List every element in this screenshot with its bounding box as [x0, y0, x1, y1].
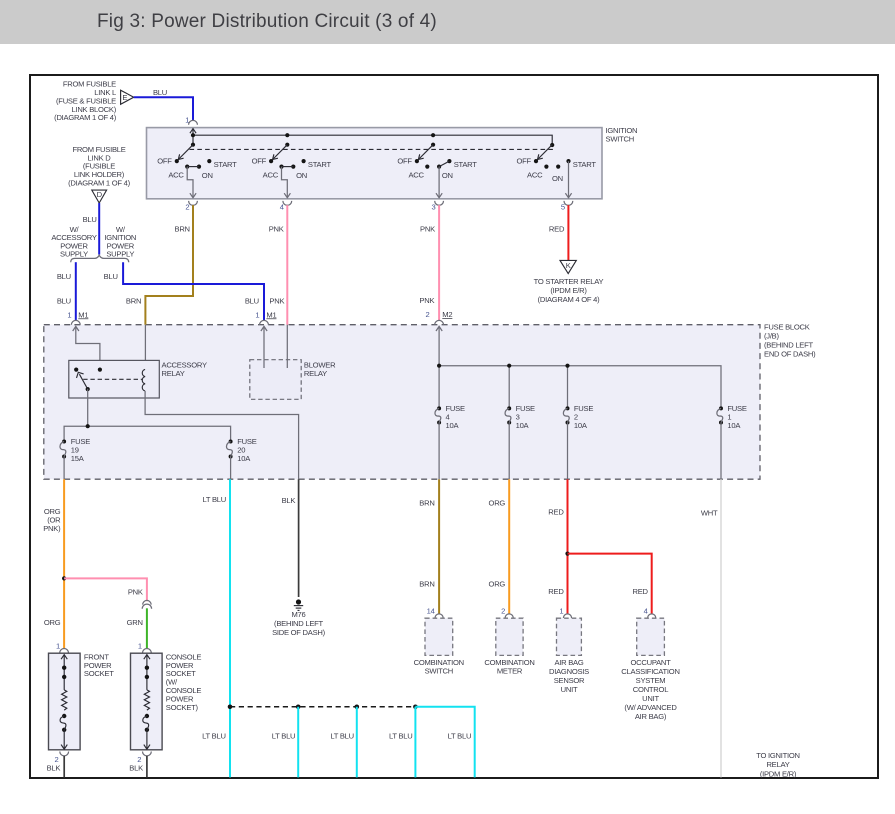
svg-text:START: START	[308, 160, 332, 169]
svg-text:M1: M1	[78, 310, 88, 319]
svg-text:START: START	[454, 160, 478, 169]
svg-text:1: 1	[255, 310, 259, 319]
console power socket	[129, 652, 201, 777]
svg-text:ON: ON	[202, 171, 213, 180]
svg-text:ON: ON	[296, 171, 307, 180]
svg-text:4: 4	[644, 607, 648, 616]
svg-text:PNK): PNK)	[43, 524, 61, 533]
svg-text:SWITCH: SWITCH	[606, 134, 634, 143]
wire PNK: ignition pin 4 to blower relay	[269, 205, 288, 368]
wire LT BLU: fuse 20 down to splice bus	[202, 479, 230, 777]
combination switch	[414, 618, 464, 675]
svg-text:ORG: ORG	[44, 618, 61, 627]
svg-text:K: K	[566, 261, 571, 270]
svg-text:BLK: BLK	[282, 496, 296, 505]
blower relay	[250, 360, 336, 400]
svg-text:UNIT: UNIT	[642, 694, 659, 703]
ignition switch pin 5 exit connector	[561, 201, 573, 211]
ignition switch box	[147, 126, 638, 199]
fuse 2 10A	[563, 404, 593, 479]
svg-text:START: START	[214, 160, 238, 169]
svg-text:RELAY: RELAY	[162, 369, 185, 378]
svg-text:OFF: OFF	[252, 157, 267, 166]
svg-text:ORG: ORG	[489, 580, 506, 589]
svg-text:PNK: PNK	[269, 297, 284, 306]
ignition switch gang 2 (feeds pin 4)	[252, 145, 332, 198]
svg-text:ACC: ACC	[408, 171, 424, 180]
fuse 19 15A	[60, 437, 90, 479]
svg-text:PNK: PNK	[420, 225, 435, 234]
connector E (from fusible link L)	[54, 79, 134, 122]
connector D (from fusible link D)	[68, 145, 131, 203]
svg-text:LT BLU: LT BLU	[202, 732, 226, 741]
fuse supply rail from connector M2	[437, 364, 721, 409]
svg-text:10A: 10A	[237, 454, 251, 463]
wire ORG: fuse 3 to combination meter pin 2	[489, 479, 514, 618]
svg-text:BLU: BLU	[83, 215, 97, 224]
svg-text:ACC: ACC	[527, 171, 543, 180]
svg-text:BLK: BLK	[129, 764, 143, 773]
svg-text:CONTROL: CONTROL	[633, 685, 668, 694]
svg-text:(IPDM E/R): (IPDM E/R)	[550, 286, 587, 295]
wire PNK: ignition pin 3 to fuse block connector M2	[419, 205, 452, 366]
svg-text:1: 1	[138, 642, 142, 651]
svg-text:LT BLU: LT BLU	[389, 732, 413, 741]
svg-text:PNK: PNK	[419, 296, 434, 305]
svg-text:AIR BAG: AIR BAG	[554, 658, 583, 667]
occupant classification system control unit	[621, 618, 679, 721]
svg-text:FUSE BLOCK: FUSE BLOCK	[764, 322, 810, 331]
inline connector (PNK to GRN)	[142, 600, 151, 608]
svg-text:Fig 3: Power Distribution Circ: Fig 3: Power Distribution Circuit (3 of …	[97, 11, 437, 32]
svg-text:ON: ON	[442, 171, 453, 180]
svg-text:RED: RED	[548, 508, 564, 517]
svg-text:RELAY: RELAY	[766, 760, 789, 769]
svg-text:3: 3	[432, 202, 436, 211]
wire RED: branch to occupant classification unit pin 4	[568, 554, 656, 618]
svg-text:2: 2	[137, 755, 141, 764]
svg-text:(DIAGRAM 1 OF 4): (DIAGRAM 1 OF 4)	[68, 179, 131, 188]
svg-text:OFF: OFF	[157, 157, 172, 166]
svg-text:PNK: PNK	[128, 588, 143, 597]
svg-text:1: 1	[56, 642, 60, 651]
svg-text:10A: 10A	[727, 421, 741, 430]
svg-text:(IPDM E/R): (IPDM E/R)	[760, 769, 797, 778]
svg-text:(W/ ADVANCED: (W/ ADVANCED	[624, 703, 677, 712]
wire GRN: inline connector to console power socket	[127, 608, 152, 653]
svg-text:TO IGNITION: TO IGNITION	[756, 751, 800, 760]
wire BRN: fuse 4 to combination switch pin 14	[419, 479, 443, 618]
svg-text:(J/B): (J/B)	[764, 331, 780, 340]
svg-text:UNIT: UNIT	[561, 685, 578, 694]
ground M76	[272, 599, 326, 637]
svg-text:PNK: PNK	[269, 225, 284, 234]
svg-text:1: 1	[67, 310, 71, 319]
fuse 3 10A	[505, 404, 535, 479]
svg-text:10A: 10A	[574, 421, 588, 430]
ignition switch pin 3 exit connector	[432, 201, 444, 211]
svg-text:ACC: ACC	[263, 171, 279, 180]
svg-text:AIR BAG): AIR BAG)	[635, 712, 667, 721]
svg-text:D: D	[97, 190, 103, 199]
svg-text:END OF DASH): END OF DASH)	[764, 349, 816, 358]
svg-text:SUPPLY: SUPPLY	[60, 250, 88, 259]
wire LT BLU drop 4	[389, 707, 415, 778]
wire RED: fuse 2 to air bag diagnosis sensor unit pin 1	[548, 479, 571, 618]
svg-text:E: E	[122, 93, 127, 102]
connector K (to starter relay)	[534, 260, 604, 304]
svg-text:2: 2	[55, 755, 59, 764]
svg-text:DIAGNOSIS: DIAGNOSIS	[549, 667, 589, 676]
svg-text:RED: RED	[633, 587, 649, 596]
svg-text:METER: METER	[497, 666, 523, 675]
air bag diagnosis sensor unit	[549, 618, 589, 694]
ignition switch gang 3 (feeds pin 3)	[397, 145, 477, 198]
svg-text:2: 2	[501, 607, 505, 616]
svg-text:BRN: BRN	[175, 225, 190, 234]
fuse 1 10A	[717, 404, 747, 479]
ignition switch gang 1 (OFF/ACC/ON/START, feeds pin 2)	[157, 145, 237, 198]
svg-text:(DIAGRAM 4 OF 4): (DIAGRAM 4 OF 4)	[538, 295, 601, 304]
fuse 20 10A	[226, 437, 256, 479]
svg-text:SUPPLY: SUPPLY	[106, 250, 134, 259]
wire BLU: ignition-supply branch to fuse block connector M1 (right)	[104, 262, 277, 368]
wire ORG: fuse 19 to front power socket	[43, 479, 68, 653]
svg-text:LT BLU: LT BLU	[330, 732, 354, 741]
svg-text:(DIAGRAM 1 OF 4): (DIAGRAM 1 OF 4)	[54, 113, 117, 122]
svg-text:M2: M2	[442, 310, 452, 319]
wire BLU: connector D to brace split	[83, 203, 100, 255]
svg-text:BLK: BLK	[47, 764, 61, 773]
svg-text:RELAY: RELAY	[304, 369, 327, 378]
svg-text:TO STARTER RELAY: TO STARTER RELAY	[534, 277, 604, 286]
svg-text:(BEHIND LEFT: (BEHIND LEFT	[764, 340, 814, 349]
svg-text:2: 2	[426, 310, 430, 319]
svg-text:OFF: OFF	[397, 157, 412, 166]
svg-text:BRN: BRN	[419, 580, 434, 589]
wire LT BLU drop 5 (jog)	[415, 707, 474, 778]
svg-text:GRN: GRN	[127, 618, 143, 627]
ignition switch pin 4 exit connector	[280, 201, 292, 211]
svg-text:2: 2	[185, 202, 189, 211]
svg-text:SWITCH: SWITCH	[425, 666, 453, 675]
svg-text:CLASSIFICATION: CLASSIFICATION	[621, 667, 679, 676]
ignition switch pin 2 exit connector	[185, 201, 197, 211]
svg-text:LT BLU: LT BLU	[272, 732, 296, 741]
svg-text:SENSOR: SENSOR	[554, 676, 585, 685]
svg-text:BLU: BLU	[153, 88, 167, 97]
wire BLU: connector E to ignition switch pin 1	[134, 88, 198, 125]
svg-text:14: 14	[427, 607, 435, 616]
svg-text:BLU: BLU	[57, 297, 71, 306]
splice bus (dashed) with LT BLU drops	[228, 705, 418, 710]
wire LT BLU drop 3	[330, 707, 356, 778]
svg-text:ORG: ORG	[489, 499, 506, 508]
svg-text:SYSTEM: SYSTEM	[636, 676, 666, 685]
svg-text:10A: 10A	[446, 421, 460, 430]
svg-text:SOCKET): SOCKET)	[166, 703, 199, 712]
svg-text:LT BLU: LT BLU	[448, 732, 472, 741]
wire BRN: ignition pin 2 to accessory relay coil	[126, 205, 193, 369]
wire BLU: accessory-supply branch to fuse block connector M1 (left)	[57, 262, 89, 331]
svg-text:SIDE OF DASH): SIDE OF DASH)	[272, 628, 326, 637]
svg-text:(BEHIND LEFT: (BEHIND LEFT	[274, 619, 324, 628]
svg-text:BLU: BLU	[104, 272, 118, 281]
wire PNK: junction to console socket inline connector	[64, 578, 147, 601]
wire WHT: fuse 1 to ignition relay (off-page)	[701, 479, 800, 778]
ignition switch gang 4 (feeds pin 5)	[516, 145, 596, 198]
wire: accessory relay coil to BLK ground feed	[145, 391, 299, 479]
svg-text:ACC: ACC	[168, 171, 184, 180]
svg-text:5: 5	[561, 202, 565, 211]
svg-text:M1: M1	[266, 310, 276, 319]
svg-text:15A: 15A	[71, 454, 85, 463]
ignition switch internal bus and dashed link	[190, 129, 556, 150]
svg-text:BRN: BRN	[419, 499, 434, 508]
svg-text:SOCKET: SOCKET	[84, 669, 114, 678]
svg-text:BRN: BRN	[126, 297, 141, 306]
wire: accessory relay output to fuse 19 / fuse 20 rail	[64, 389, 231, 441]
svg-text:BLU: BLU	[57, 272, 71, 281]
svg-text:ON: ON	[552, 174, 563, 183]
fuse block (J/B) dashed enclosure	[44, 322, 816, 479]
svg-text:LT BLU: LT BLU	[202, 495, 226, 504]
svg-text:RED: RED	[548, 587, 564, 596]
svg-text:10A: 10A	[516, 421, 530, 430]
accessory relay	[69, 326, 207, 398]
wire RED: ignition pin 5 to starter relay triangle K	[549, 205, 568, 260]
svg-text:OFF: OFF	[516, 157, 531, 166]
combination meter	[484, 618, 534, 675]
svg-text:BLU: BLU	[245, 297, 259, 306]
svg-text:M76: M76	[291, 610, 305, 619]
brace: W/ ACCESSORY POWER SUPPLY vs W/ IGNITION POWER SUPPLY	[51, 225, 136, 262]
fuse 4 10A	[435, 404, 465, 479]
wire BLK: accessory relay coil to ground M76	[282, 479, 299, 597]
svg-text:WHT: WHT	[701, 508, 718, 517]
svg-text:4: 4	[280, 202, 284, 211]
wire LT BLU drop 2	[272, 707, 298, 778]
svg-text:OCCUPANT: OCCUPANT	[630, 658, 671, 667]
svg-text:START: START	[573, 160, 597, 169]
front power socket	[47, 652, 115, 777]
svg-text:1: 1	[559, 607, 563, 616]
svg-text:RED: RED	[549, 225, 565, 234]
